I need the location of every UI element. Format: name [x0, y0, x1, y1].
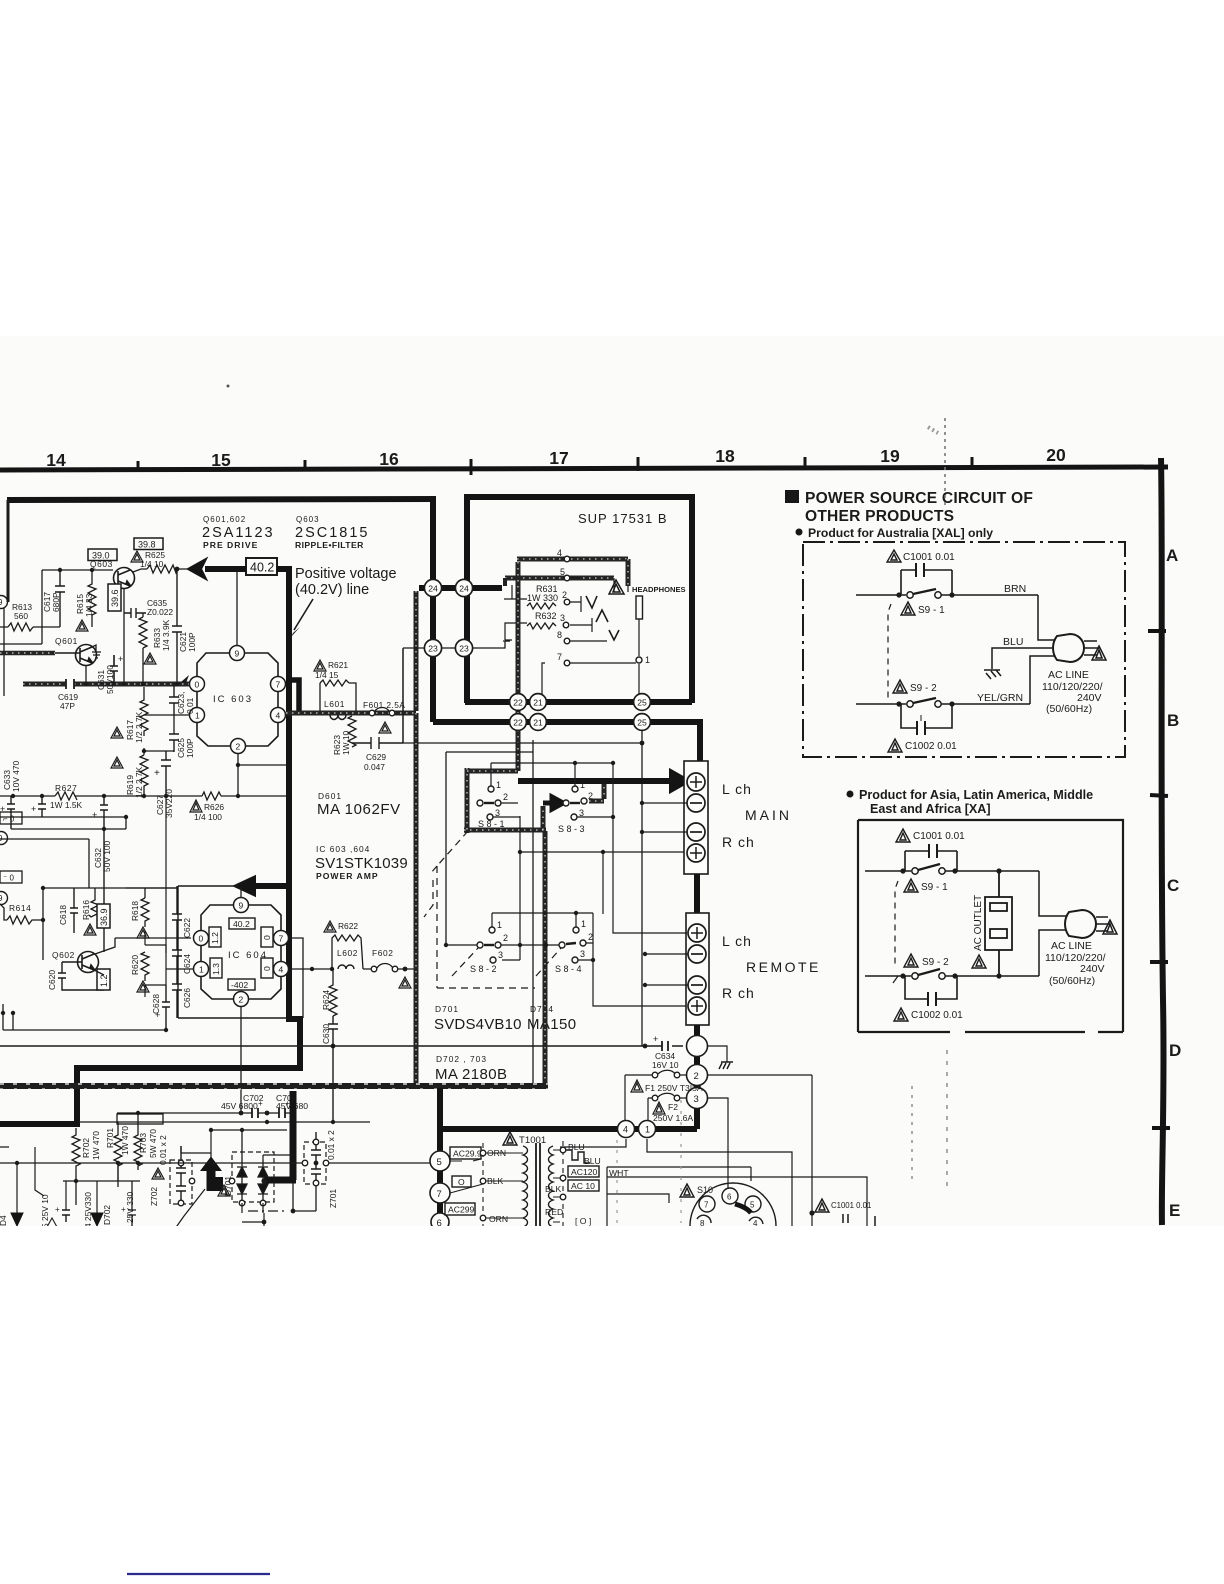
- inductor L602: [338, 965, 354, 969]
- IC603 pin 7: [271, 677, 286, 692]
- boxed 1.3 inside IC604: [210, 958, 222, 978]
- svg-text:6: 6: [727, 1193, 732, 1202]
- svg-text:S 8 - 4: S 8 - 4: [555, 964, 582, 974]
- thick elbow bridge to x293: [264, 1177, 296, 1184]
- svg-text:Product for Australia [XAL] on: Product for Australia [XAL] only: [808, 526, 993, 540]
- svg-text:POWER SOURCE CIRCUIT OF: POWER SOURCE CIRCUIT OF: [805, 490, 1033, 507]
- IC604 pin 7: [274, 931, 289, 946]
- resistor R621 loop: [320, 680, 356, 711]
- capacitor C1002 (Asia): [905, 976, 957, 1006]
- thick row1 SUP bottom: [465, 699, 692, 705]
- svg-text:3: 3: [580, 949, 585, 959]
- svg-text:5W 470: 5W 470: [148, 1129, 158, 1158]
- junction dots R614: [41, 886, 45, 890]
- capacitor C627 plus: [161, 751, 171, 796]
- boxed 1.2 Q602: [97, 969, 110, 990]
- connector circle 4: [618, 1121, 635, 1138]
- svg-text:R702: R702: [81, 1138, 91, 1158]
- svg-text:BLK: BLK: [545, 1184, 562, 1194]
- junction dot y913: [574, 911, 578, 915]
- big solid arrow D701: [202, 1158, 222, 1190]
- S8-3 wire c3: [577, 816, 613, 818]
- wire pin7 drop: [542, 663, 545, 698]
- right border ticks: [1148, 631, 1170, 1128]
- capacitor C630: [328, 1016, 338, 1122]
- svg-text:POWER AMP: POWER AMP: [316, 871, 379, 881]
- hatched rail pin4 F601: [286, 711, 416, 716]
- Z701 capacitors: [311, 1132, 321, 1180]
- svg-text:S9 - 1: S9 - 1: [918, 605, 945, 616]
- svg-text:1W 330: 1W 330: [527, 593, 558, 603]
- pointer line to arrow: [172, 1189, 205, 1233]
- circled 9 at R614: [0, 892, 8, 905]
- svg-text:+: +: [92, 810, 97, 820]
- resistor R619 vertical: [140, 755, 148, 796]
- svg-text:21: 21: [533, 698, 543, 708]
- IC603 box: [197, 653, 278, 746]
- svg-text:50V100: 50V100: [105, 665, 115, 694]
- svg-text:1W 470: 1W 470: [91, 1131, 101, 1160]
- svg-text:East and Africa [XA]: East and Africa [XA]: [870, 802, 991, 816]
- svg-text:C1001 0.01: C1001 0.01: [903, 552, 955, 563]
- BRN wire down to plug: [1038, 595, 1054, 640]
- wire R618 to C624: [145, 931, 166, 953]
- svg-text:1/4 10: 1/4 10: [140, 559, 164, 569]
- svg-text:1: 1: [580, 780, 585, 790]
- wire pin7 IC604 right: [289, 938, 332, 1018]
- svg-text:MA150: MA150: [527, 1016, 577, 1033]
- svg-text:39.8: 39.8: [138, 540, 156, 550]
- svg-text:25: 25: [637, 718, 647, 728]
- svg-text:+: +: [653, 1034, 658, 1044]
- connector 25 row2: [634, 714, 651, 731]
- wire y888 R618 top: [126, 888, 178, 898]
- warning triangle C1001 Asia label: [896, 829, 910, 842]
- MAIN terminal strip: [684, 761, 708, 874]
- svg-text:7: 7: [437, 1189, 442, 1200]
- svg-text:24: 24: [459, 584, 469, 594]
- wire circle4 down: [560, 1139, 626, 1147]
- ground (Australia): [984, 670, 1001, 679]
- svg-text:R616: R616: [81, 900, 91, 920]
- warning triangle small bottom: [47, 1218, 57, 1227]
- ground C631: [92, 645, 101, 658]
- svg-text:⁻ 0: ⁻ 0: [3, 874, 14, 883]
- wires R614 net: [0, 888, 178, 960]
- S10 pin 6: [722, 1188, 738, 1204]
- svg-text:⌐ 0: ⌐ 0: [3, 815, 15, 824]
- wire R617 R619 mid: [144, 715, 174, 755]
- junction dots x520: [518, 850, 522, 854]
- wire circle1 down right: [647, 1139, 792, 1226]
- label Positive voltage (40.2V) line: [295, 566, 397, 598]
- warning triangle R633: [144, 653, 156, 664]
- svg-text:Z0.022: Z0.022: [147, 607, 173, 617]
- bridge diode down-right: [258, 1177, 268, 1203]
- IC603 pin 4: [271, 708, 286, 723]
- junction dot C629-x642: [640, 741, 645, 746]
- Z702 capacitors: [176, 1146, 186, 1200]
- warning triangle R618: [137, 927, 149, 938]
- junction dots R627 row: [11, 794, 15, 798]
- svg-text:2: 2: [239, 995, 244, 1005]
- switch S8-4 wires: [492, 913, 687, 1006]
- S8-1 hatched frame: [464, 768, 546, 833]
- junction dots y763: [573, 761, 577, 765]
- warning triangle F1 + label: [631, 1080, 643, 1092]
- svg-text:24: 24: [428, 584, 438, 594]
- svg-text:R621: R621: [328, 660, 348, 670]
- Asia box border: [858, 820, 1123, 1032]
- connector 22 row1: [510, 694, 527, 711]
- connector 21 row1: [530, 694, 547, 711]
- wire pin0 IC604 row: [115, 937, 191, 939]
- transformer secondary coil: [549, 1146, 554, 1227]
- svg-text:AC299: AC299: [448, 1205, 474, 1215]
- warning triangle S10: [680, 1184, 694, 1197]
- inductor L601 bumps: [330, 715, 346, 720]
- junction dots bridge: [261, 1178, 266, 1183]
- svg-text:1: 1: [496, 780, 501, 790]
- svg-text:R614: R614: [9, 903, 31, 913]
- warning triangle C1001 bottom: [815, 1199, 829, 1212]
- REMOTE -L: [688, 945, 706, 963]
- bullet Product for Australia: [796, 526, 994, 540]
- resistor R633 vertical: [139, 617, 147, 648]
- wire R627 row: [0, 795, 286, 797]
- capacitor C620: [58, 962, 104, 990]
- junction dots y1130: [209, 1128, 213, 1132]
- svg-text:REMOTE: REMOTE: [746, 959, 821, 975]
- IC604 pin 1: [194, 962, 209, 977]
- switch S8-4 pole: [559, 942, 565, 948]
- svg-text:16: 16: [379, 449, 399, 469]
- warning triangle C1002 Asia label: [894, 1008, 908, 1021]
- IC604 pin 9: [234, 898, 249, 913]
- svg-text:C630: C630: [321, 1024, 331, 1044]
- svg-text:C629: C629: [366, 752, 386, 762]
- svg-text:S9 - 2: S9 - 2: [922, 957, 949, 968]
- svg-text:A: A: [1166, 546, 1178, 565]
- wires Q601 cluster: [86, 666, 114, 684]
- svg-text:R703: R703: [138, 1133, 148, 1153]
- long supply wire y1046: [0, 1045, 683, 1047]
- Australia box border (dash-dot): [803, 542, 1125, 757]
- svg-text:S9 - 1: S9 - 1: [921, 882, 948, 893]
- svg-text:3: 3: [560, 613, 565, 623]
- resistor R615 vertical: [88, 570, 96, 627]
- connector 21 row2: [530, 714, 547, 731]
- rotary switch S10 circle: [690, 1183, 776, 1226]
- svg-text:R620: R620: [130, 955, 140, 975]
- wire x403 x642 verticals: [641, 730, 643, 1046]
- svg-text:SUP 17531 B: SUP 17531 B: [578, 511, 668, 526]
- svg-text:C: C: [1167, 876, 1179, 895]
- IC603 pin 1: [190, 708, 205, 723]
- svg-text:E: E: [1169, 1201, 1180, 1220]
- wire pin9 IC604 up: [240, 886, 242, 898]
- wire y1122 long: [78, 1121, 370, 1123]
- switch S8-4 contact 3: [572, 957, 578, 963]
- diode D702b down: [91, 1213, 103, 1226]
- hatched vertical from 24-row: [414, 591, 419, 711]
- MAIN +R: [687, 844, 705, 862]
- svg-text:2: 2: [588, 791, 593, 801]
- resistor R614 zigzag: [7, 916, 43, 924]
- ruler line: [0, 467, 1168, 470]
- pointer line to 40.2V trace: [294, 599, 313, 630]
- switch S8-2 contact 3: [490, 957, 496, 963]
- thick vertical below REMOTE: [694, 1025, 700, 1129]
- svg-text:1/2 2.7K: 1/2 2.7K: [134, 711, 144, 743]
- heading POWER SOURCE CIRCUIT OF OTHER PRODUCTS: [785, 490, 1033, 525]
- svg-text:F2: F2: [668, 1102, 678, 1112]
- svg-text:7: 7: [704, 1201, 709, 1210]
- 40.2V branch to rail: [289, 680, 299, 711]
- junction dot x293 bottom: [291, 1209, 296, 1214]
- harness circles x483: [480, 1150, 486, 1156]
- junction dots S8-2: [444, 943, 448, 947]
- junction dots rail: [84, 682, 88, 686]
- capacitor C1001 (Asia): [905, 844, 957, 871]
- boxed 0 upper inside IC604: [261, 927, 273, 947]
- switch S8-4 contact 1: [573, 927, 579, 933]
- svg-text:1.3: 1.3: [211, 963, 221, 975]
- bridge wires: [242, 1155, 293, 1226]
- AC plug (Asia): [1065, 910, 1110, 938]
- thick vertical below MAIN strip: [694, 874, 700, 913]
- svg-text:+: +: [154, 768, 160, 779]
- capacitor C628 plus: [162, 985, 170, 1030]
- scan artifact dotted verticals bottom middle: [911, 1086, 913, 1180]
- warning triangle S9-2 Asia label: [904, 954, 918, 967]
- svg-text:22: 22: [513, 718, 523, 728]
- svg-text:36.9: 36.9: [99, 908, 109, 926]
- switch S8-4 contact 2: [580, 940, 586, 946]
- warning triangle AC OUTLET: [972, 955, 986, 968]
- wire pin1 left IC604: [166, 968, 193, 970]
- boxed AC120: [568, 1166, 599, 1177]
- wire F1 right long: [708, 1075, 812, 1226]
- svg-text:240V: 240V: [1080, 963, 1105, 975]
- svg-text:Z701: Z701: [328, 1189, 338, 1208]
- Z702 dashed box: [170, 1160, 192, 1204]
- connector circle 2: [687, 1065, 708, 1086]
- boxed 1.2 inside IC604: [209, 927, 221, 947]
- warning triangle R615: [76, 620, 88, 631]
- svg-text:0: 0: [262, 966, 272, 971]
- svg-text:BLU: BLU: [584, 1156, 601, 1166]
- headphones warning triangle: [609, 580, 624, 594]
- wire Q603 collector to R625: [133, 569, 189, 572]
- label Q603 2SC1815 RIPPLE FILTER: [295, 515, 369, 550]
- junction dot x882: [809, 1210, 814, 1215]
- svg-text:HEADPHONES: HEADPHONES: [632, 585, 686, 594]
- rail arrow: [181, 675, 189, 683]
- svg-text:1: 1: [645, 1125, 650, 1135]
- cap marks x132: [128, 1181, 136, 1226]
- switch S8-2 contact 1: [489, 927, 495, 933]
- svg-text:5: 5: [750, 1201, 755, 1210]
- svg-text:680P: 680P: [51, 592, 61, 612]
- switch S8-1 contact 3: [487, 814, 493, 820]
- boxed AC299: [445, 1203, 475, 1215]
- resistor R620 vertical: [141, 952, 149, 981]
- svg-text:1: 1: [581, 919, 586, 929]
- Z701 junction dot: [314, 1161, 319, 1166]
- wire S8-3 c1: [574, 763, 576, 786]
- svg-text:2: 2: [503, 792, 508, 802]
- capacitor C619: [66, 679, 74, 689]
- boxed 39.0: [88, 549, 117, 561]
- svg-text:Q603: Q603: [90, 559, 113, 569]
- capacitor C632 plus: [100, 796, 108, 952]
- IC604 surrounding box: [178, 886, 287, 1018]
- svg-text:[ O ]: [ O ]: [575, 1216, 591, 1226]
- warning triangle R625: [131, 551, 143, 562]
- svg-text:MA 1062FV: MA 1062FV: [317, 801, 401, 818]
- REMOTE +R: [688, 997, 706, 1015]
- junction dots bottom left: [15, 1161, 19, 1165]
- svg-text:21: 21: [533, 718, 543, 728]
- junction dot mid: [142, 749, 146, 753]
- boxed 0 lower inside IC604: [261, 958, 273, 978]
- svg-text:4 25V330: 4 25V330: [83, 1192, 93, 1228]
- svg-text:RED: RED: [545, 1207, 563, 1217]
- thick vertical main-box corner: [430, 497, 436, 722]
- svg-text:L601: L601: [324, 699, 345, 709]
- bridge diode up-right: [258, 1160, 268, 1177]
- svg-text:S 8 - 1: S 8 - 1: [478, 819, 505, 829]
- IC604 pin 4: [274, 962, 289, 977]
- staircase BLU wire: [566, 1150, 590, 1163]
- wire y817: [0, 817, 126, 829]
- hatched stub into Q601 base: [0, 651, 55, 656]
- warning triangle F602: [399, 977, 411, 988]
- junction dots x644: [640, 801, 644, 805]
- switch S8-3 contact 2: [581, 798, 587, 804]
- warning triangle R621: [314, 660, 326, 671]
- transformer T1001 primary coil: [523, 1146, 528, 1227]
- svg-text:R624: R624: [321, 990, 331, 1010]
- wire pin2 IC604 down: [240, 1007, 242, 1113]
- svg-text:S9 - 2: S9 - 2: [910, 683, 937, 694]
- svg-text:2: 2: [236, 742, 241, 752]
- switch S8-1 contact 2: [495, 800, 501, 806]
- svg-text:1/2 2.7K: 1/2 2.7K: [134, 766, 144, 798]
- svg-text:L ch: L ch: [722, 781, 752, 797]
- svg-text:+: +: [285, 1099, 290, 1108]
- capacitor C618: [70, 888, 78, 933]
- bridge diode up-left: [237, 1132, 247, 1177]
- junction dots y1030: [164, 1028, 168, 1032]
- wires into REMOTE terminals: [613, 763, 688, 985]
- junction dot y1046 x645: [643, 1044, 648, 1049]
- svg-text:2: 2: [588, 932, 593, 942]
- thick trace 24-row: [419, 585, 502, 591]
- wire y1113: [117, 1112, 296, 1114]
- wire R620 to pin1: [145, 985, 166, 997]
- connector 22 row2: [510, 714, 527, 731]
- junction dots pin4 row: [310, 967, 314, 971]
- connector circle 3: [687, 1088, 708, 1109]
- hatched corner rail4 right: [626, 559, 631, 586]
- resistor R701 vertical: [114, 1122, 122, 1187]
- svg-text:AC OUTLET: AC OUTLET: [973, 895, 984, 951]
- svg-text:1/4 100: 1/4 100: [194, 812, 222, 822]
- Z702 terminals: [178, 1160, 184, 1166]
- IC603 pin 0: [190, 677, 205, 692]
- svg-text:7: 7: [279, 934, 284, 944]
- junction dot y829: [102, 827, 106, 831]
- svg-text:50V 100: 50V 100: [102, 840, 112, 872]
- jack contact chevron 8: [609, 630, 619, 640]
- svg-text:L ch: L ch: [722, 933, 752, 949]
- capacitor at x66 plus: [62, 1210, 70, 1222]
- D701 bridge dashed box: [232, 1152, 274, 1202]
- junction dots S9-1 Asia: [900, 868, 905, 873]
- capacitor C622: [172, 886, 182, 950]
- svg-text:IC 603 ,604: IC 603 ,604: [316, 844, 370, 854]
- REMOTE -R: [688, 976, 706, 994]
- switch S9-2 (Australia): [856, 656, 1054, 707]
- svg-text:5: 5: [437, 1157, 442, 1168]
- svg-text:16V 10: 16V 10: [652, 1060, 679, 1070]
- capacitor x42 plus: [38, 796, 46, 817]
- svg-text:C1002 0.01: C1002 0.01: [911, 1010, 963, 1021]
- S10 pin 4 partial: [749, 1217, 763, 1224]
- bullet Product for Asia: [847, 788, 1094, 816]
- svg-text:0.01 x 2: 0.01 x 2: [158, 1135, 168, 1165]
- svg-text:23: 23: [459, 644, 469, 654]
- ground C634: [719, 1062, 733, 1069]
- svg-text:YEL/GRN: YEL/GRN: [977, 692, 1023, 704]
- switch S8-1 pole: [477, 800, 483, 806]
- thin center-block verticals: [403, 649, 533, 1083]
- bottom wires left: [0, 1147, 152, 1213]
- wire y1163 to circle5: [152, 1162, 430, 1164]
- right border vertical: [1161, 458, 1164, 1225]
- wire x603 drop: [602, 852, 604, 914]
- transistor Q602: [62, 952, 99, 973]
- svg-text:C1002 0.01: C1002 0.01: [905, 741, 957, 752]
- svg-text:AC29.9: AC29.9: [453, 1149, 482, 1159]
- warning triangle R622: [324, 921, 336, 932]
- MAIN -L: [687, 794, 705, 812]
- bridge terminals: [239, 1200, 245, 1206]
- svg-text:C1001 0.01: C1001 0.01: [913, 831, 965, 842]
- warning triangle T1001: [503, 1132, 517, 1145]
- svg-text:R626: R626: [204, 802, 224, 812]
- thick horizontal y1129: [440, 1126, 697, 1132]
- switch S8-1 contact 1: [488, 786, 494, 792]
- svg-text:B: B: [1167, 711, 1179, 730]
- wire y1030: [3, 1004, 166, 1030]
- jack tip terminal 1: [638, 619, 640, 700]
- resistor R702 vertical: [72, 1128, 80, 1205]
- harness circles x563: [560, 1147, 566, 1153]
- svg-text:4: 4: [279, 965, 284, 975]
- svg-text:T1001: T1001: [519, 1135, 546, 1146]
- svg-text:(50/60Hz): (50/60Hz): [1049, 975, 1095, 987]
- switch S8-2 wires: [446, 945, 558, 960]
- svg-text:18: 18: [715, 446, 735, 466]
- junction dots y1113: [136, 1111, 140, 1115]
- warning triangle R619: [111, 757, 123, 768]
- fuse F602: [363, 968, 416, 970]
- wires into MAIN - terminals: [644, 803, 687, 832]
- C627 column down: [165, 796, 167, 985]
